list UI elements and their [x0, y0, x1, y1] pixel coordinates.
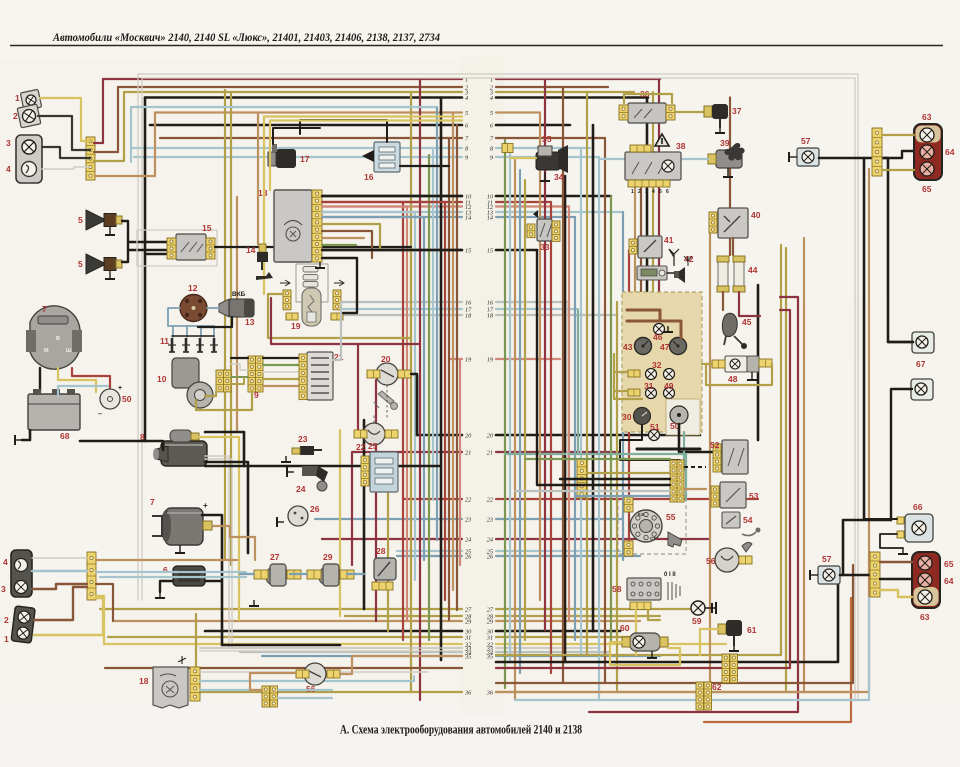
svg-text:24: 24 [487, 536, 493, 543]
horn 5 lower [86, 254, 122, 274]
wire plug drop 1 [172, 326, 174, 337]
heater motor 35 [536, 145, 568, 173]
wire 9 to 21 r5 [263, 385, 299, 387]
wire line 9 right page [496, 156, 599, 158]
wire olive to line36 [195, 614, 197, 692]
wire line 29 left page [113, 620, 462, 622]
wire line 12 left page [322, 205, 462, 207]
oil can icon [256, 272, 273, 280]
wire ll strip down brown [96, 584, 113, 621]
svg-text:5: 5 [78, 215, 83, 225]
sensor 26 [288, 506, 308, 526]
wire starter white a [205, 456, 229, 649]
wire vertical x=605 right page [604, 138, 606, 683]
relay 16 arrow [362, 150, 374, 162]
svg-text:11: 11 [160, 336, 169, 346]
horn 5 upper [86, 210, 122, 230]
svg-text:63: 63 [922, 112, 932, 122]
wire plug drop 3 [200, 326, 202, 337]
wire 66 b left [880, 534, 903, 548]
svg-text:22: 22 [356, 442, 366, 452]
wire panel black loop [620, 425, 680, 460]
wire vertical x=407 left page [406, 207, 408, 621]
wire vertical x=424 left page [423, 217, 425, 560]
svg-text:64: 64 [945, 147, 955, 157]
instrument panel 43-51 [622, 292, 702, 432]
ground horn [105, 271, 115, 279]
svg-text:18: 18 [465, 312, 472, 319]
dash line 20 [386, 385, 388, 418]
wire gen tan out [212, 526, 255, 560]
connector 20 left [367, 370, 380, 378]
wire ll lamps 2 brown [34, 587, 87, 620]
wire line 33 left page [200, 647, 462, 649]
connector 19 left low [286, 313, 298, 320]
ground 66 [898, 548, 908, 554]
wire line 30 left page [205, 630, 462, 633]
wire to stack green [525, 458, 670, 460]
svg-text:5: 5 [465, 110, 468, 117]
svg-text:5: 5 [490, 110, 493, 117]
ground 26 [277, 517, 284, 527]
svg-text:22: 22 [465, 496, 472, 503]
ignition coil 13 [219, 299, 254, 317]
connector 9b [224, 370, 232, 392]
unit 19 outline [296, 264, 328, 302]
svg-text:3: 3 [6, 138, 11, 148]
connector 33 right [552, 221, 560, 241]
wire to stack black1 [560, 478, 670, 480]
antenna mark [684, 256, 692, 266]
wire ll lamps 4 blue [32, 570, 87, 572]
wire line 4 left page [145, 96, 462, 99]
wire 16 black right [400, 165, 449, 167]
wire screened pair left vertical B [141, 78, 143, 600]
wire line 10 right page [496, 195, 611, 198]
connector 9a [216, 370, 224, 392]
svg-text:41: 41 [664, 235, 674, 245]
wire vertical x=617 right page [616, 302, 618, 692]
connector 41 left [629, 239, 637, 254]
svg-text:31: 31 [464, 634, 471, 641]
wire line 16 right page [496, 301, 567, 303]
wire 18 white out [200, 671, 428, 673]
wire stack blue b [278, 697, 332, 699]
svg-text:56: 56 [706, 556, 716, 566]
connector 58 below [630, 602, 651, 610]
connector 22 left [354, 430, 367, 438]
ground 37 [715, 128, 725, 133]
wire lamp1 to strip [40, 98, 90, 141]
wiper motor 10 [172, 358, 213, 408]
wire 7 to bottom [39, 368, 41, 392]
resistor 19 r2 [303, 275, 318, 281]
wire vertical x=647 right page [646, 98, 649, 293]
switch 54 [722, 512, 740, 528]
svg-text:38: 38 [676, 141, 686, 151]
wire 9 white step [231, 364, 248, 370]
wire ltblue top h [131, 106, 436, 108]
wire vertical x=593 right page [592, 125, 595, 631]
svg-text:7: 7 [150, 497, 155, 507]
ground 27 [249, 600, 259, 606]
connector relay15 right [206, 238, 215, 259]
svg-text:14: 14 [465, 214, 471, 221]
wire line 26 right page [496, 555, 640, 557]
connector 48 right [759, 359, 772, 367]
connector stack bottom left [262, 686, 270, 707]
svg-text:19: 19 [291, 321, 301, 331]
wire coil black down [198, 317, 232, 327]
svg-text:63: 63 [920, 612, 930, 622]
wire vertical x=525 right page [524, 180, 526, 640]
connector 56 r [327, 670, 340, 678]
wire strip feeder line1 [94, 79, 103, 143]
wire white from16 [566, 303, 568, 497]
wire vertical x=340 left page [339, 430, 341, 616]
wire 22 dash [373, 414, 375, 423]
svg-text:30: 30 [622, 412, 632, 422]
wire frame yellow B [270, 119, 462, 121]
unit 25 [370, 452, 398, 492]
wire line 28 left page [345, 615, 462, 617]
wire vertical x=237 left page [236, 197, 238, 430]
lamp 32a [646, 369, 657, 380]
wire 36 loop olive [624, 94, 672, 103]
handle sketch 20 [374, 391, 398, 410]
wire line 13 right page [496, 211, 623, 213]
wire line 3 right page [496, 91, 634, 93]
wire bottom fan olive [496, 245, 781, 655]
switch 27 [266, 564, 286, 586]
svg-text:59: 59 [692, 616, 702, 626]
gauge 50r [670, 406, 688, 424]
wire screened pair top horizontal B [142, 77, 855, 79]
wire vertical x=551 right page [550, 202, 552, 673]
connector 48 left [712, 360, 725, 368]
wire vertical x=364 left page [363, 420, 366, 609]
wire vertical x=869 right page [868, 169, 870, 692]
wire panel olive v [614, 354, 642, 399]
svg-text:19: 19 [465, 356, 472, 363]
svg-text:23: 23 [298, 434, 308, 444]
connector line8 [502, 144, 513, 153]
ground 6 [155, 592, 165, 598]
wire pins18 fan 11 [322, 201, 445, 203]
wire pins18 fan 14 [322, 216, 424, 218]
relay 53 [720, 482, 746, 508]
battery 68 [28, 389, 80, 430]
wire vertical x=231 left page [230, 92, 232, 565]
svg-text:Автомобили «Москвич» 2140, 214: Автомобили «Москвич» 2140, 2140 SL «Люкс… [52, 30, 440, 44]
wire bottom fan tan [496, 691, 869, 693]
connector 9d [256, 356, 264, 392]
wire 44 down [722, 292, 724, 310]
hand lever 56 [742, 542, 752, 552]
wire line 33 right page [496, 647, 600, 649]
relay 15 [176, 234, 206, 260]
connector stack 62a2 [730, 654, 738, 683]
wire 61 left [700, 629, 718, 655]
svg-text:67: 67 [916, 359, 926, 369]
ground 34 [540, 172, 550, 181]
wire 9 olive step [231, 378, 244, 384]
wire 9 to 21 r4 [263, 378, 299, 380]
wire screened pair top horizontal A [138, 73, 858, 75]
wire 6 right [205, 580, 222, 582]
svg-text:СТ: СТ [650, 536, 656, 541]
wire line 1 right page [496, 78, 660, 80]
connector 33 left [527, 224, 535, 238]
svg-text:16: 16 [364, 172, 374, 182]
wire rt yellow [882, 134, 914, 136]
wire line 29 right page [496, 620, 640, 622]
wire vertical x=131 left page [130, 107, 132, 162]
connector block18 pins [312, 190, 322, 262]
connector stack 55 right A [670, 460, 677, 502]
svg-text:5: 5 [659, 189, 662, 195]
wire line 6 left page [150, 124, 462, 127]
ground 59b [715, 602, 717, 614]
wire dist to coil blue [207, 307, 219, 309]
lamp unit 66 [905, 514, 933, 542]
antenna 42 [669, 249, 679, 266]
svg-text:М: М [44, 348, 49, 354]
connector 40 left [709, 212, 717, 233]
wire black thick 52 [637, 448, 700, 451]
wire line 22 left page [403, 498, 462, 500]
indicator 50 [100, 389, 120, 409]
svg-text:68: 68 [60, 431, 70, 441]
wire screened pair right vertical B [854, 78, 856, 700]
wire vertical x=429 left page [428, 155, 430, 640]
wire vertical x=540 right page [539, 113, 541, 601]
ground 60 [647, 651, 657, 658]
lamp 2 headlight [17, 104, 41, 128]
lamp 51 [649, 430, 660, 441]
wire 42 link [667, 272, 674, 274]
wire vertical x=388 left page [387, 490, 389, 631]
plug 61 [718, 620, 742, 646]
wire 36 to 37 [675, 111, 704, 113]
spark plug 11-1 [168, 338, 176, 352]
switch 22 [363, 423, 385, 445]
wire line 11 right page [496, 201, 551, 203]
connector 36 right [666, 105, 675, 120]
svg-text:24: 24 [296, 484, 306, 494]
svg-text:20: 20 [487, 432, 494, 439]
switch unit 18 [274, 190, 312, 262]
wire 18 blue out [200, 676, 414, 681]
svg-text:+: + [203, 501, 208, 510]
arrow 33 [533, 210, 538, 218]
ground battery [15, 435, 22, 445]
wire stack blue a [278, 689, 332, 691]
wire bottom fan black [496, 584, 838, 662]
svg-text:27: 27 [487, 606, 494, 613]
generator 7 lower [152, 508, 212, 545]
wire line 34 right page [496, 651, 610, 653]
svg-text:16: 16 [487, 299, 494, 306]
switch 56 right [715, 548, 739, 572]
wire line 13 left page [322, 211, 462, 213]
wire vertical x=352 left page [351, 452, 353, 565]
wire 44 down b [739, 292, 760, 316]
svg-text:3: 3 [1, 584, 6, 594]
wire line 8 left page [131, 147, 462, 149]
wire vertical x=563 right page [562, 87, 564, 683]
arrow 19 left [280, 280, 290, 286]
wire 67a [888, 341, 913, 343]
wire rt green [882, 169, 914, 171]
svg-text:18: 18 [258, 188, 268, 198]
wire 56 tan [340, 656, 462, 674]
tail cluster bottom [912, 552, 940, 608]
wire line 5 right page [496, 111, 540, 113]
wire vertical x=376 left page [375, 380, 377, 621]
svg-text:29: 29 [323, 552, 333, 562]
wire plug drop 4 [213, 326, 215, 337]
connector 27 right [287, 570, 301, 579]
switch 56 left [304, 663, 326, 685]
svg-text:21: 21 [465, 449, 471, 456]
wire vertical x=611 right page [610, 196, 612, 640]
wire panel olive h2 [614, 390, 628, 392]
wire line 35 right page [496, 655, 660, 657]
fuse box 21 [307, 352, 333, 400]
wire line 19 right page [496, 358, 560, 360]
wire lamp3 to strip [42, 147, 90, 158]
svg-text:20: 20 [381, 354, 391, 364]
wire ll strip out tan [96, 559, 237, 561]
ground gen [175, 545, 185, 553]
ground 57 top [789, 152, 797, 162]
svg-text:26: 26 [487, 553, 494, 560]
resistor 19 r3 [303, 282, 318, 288]
regulator 6 [173, 566, 205, 586]
svg-text:37: 37 [732, 106, 742, 116]
svg-text:20: 20 [465, 432, 472, 439]
wire vertical x=569 right page [568, 207, 570, 621]
svg-text:31: 31 [644, 381, 654, 391]
svg-text:47: 47 [660, 342, 670, 352]
svg-text:1: 1 [4, 634, 9, 644]
wire line 21 right page [496, 451, 620, 453]
screen loop relay 15 [137, 230, 217, 266]
svg-text:29: 29 [487, 618, 494, 625]
wire bottom fan dark red [496, 310, 790, 668]
connector relay15 left [167, 238, 176, 259]
svg-text:53: 53 [749, 491, 759, 501]
switch 41 [638, 236, 662, 258]
wire line 11 left page [322, 201, 462, 203]
wire 48 olive loop [706, 364, 772, 385]
wire line 15 left page [322, 249, 462, 252]
wire 19 left loop [268, 294, 411, 338]
wire line 2 right page [496, 86, 608, 88]
wire stack out dashed [684, 466, 706, 468]
svg-text:4: 4 [3, 557, 8, 567]
svg-text:А. Схема электрооборудования а: А. Схема электрооборудования автомобилей… [340, 722, 582, 737]
wire line 22 right page [496, 498, 758, 500]
svg-text:ВКБ: ВКБ [232, 291, 246, 298]
wire vertical x=804 right page [803, 238, 805, 692]
svg-text:19: 19 [487, 356, 494, 363]
wire 10 to 9 [205, 392, 216, 396]
wire frame yellow A v [263, 117, 265, 295]
wire vertical x=505 right page [504, 140, 506, 688]
svg-text:–: – [98, 411, 102, 418]
svg-text:62: 62 [712, 682, 722, 692]
svg-text:45: 45 [742, 317, 752, 327]
wire ltblue to 50 [58, 386, 108, 396]
svg-text:51: 51 [650, 422, 660, 432]
ground 48 [747, 372, 757, 380]
wire 60 loop [610, 642, 680, 665]
wire vertical x=437 left page [436, 107, 438, 540]
lamp 1 front marker [20, 89, 41, 110]
wire vertical x=441 left page [440, 98, 443, 661]
connector 21 pins [299, 354, 307, 400]
svg-text:17: 17 [300, 154, 310, 164]
fuse 44 a [717, 256, 729, 292]
wire line 7 right page [496, 137, 605, 139]
wire 66 left [864, 518, 897, 520]
wire pins18 fan d [322, 244, 356, 246]
wire 19 maroon to 22 [357, 344, 359, 430]
wire line 31 right page [496, 636, 640, 638]
wire vertical x=520 right page [519, 170, 521, 673]
wire 67b [891, 389, 912, 520]
plug 37 [704, 104, 728, 128]
svg-text:46: 46 [653, 332, 663, 342]
wire vertical x=653 right page [652, 92, 654, 292]
wire vertical x=758 right page [757, 285, 760, 440]
svg-text:4: 4 [652, 189, 655, 195]
svg-text:24: 24 [465, 536, 471, 543]
switch 40 [718, 208, 748, 238]
wire 16 loop [300, 120, 387, 142]
fan motor 39 [708, 143, 745, 168]
wire pins18 fan 15 [322, 249, 462, 251]
switch 57 bottom [818, 566, 840, 584]
wire vertical x=786 right page [785, 248, 787, 690]
resistor 19 r1 [303, 267, 318, 273]
wire line 23 left page [315, 518, 462, 520]
wire vertical x=864 right page [863, 158, 866, 519]
svg-text:0 I II: 0 I II [664, 572, 676, 578]
wire to stack black2 [537, 250, 670, 485]
ignition switch 55 [630, 510, 662, 542]
connector 27 left [254, 570, 268, 579]
wire strip feeder line3 [94, 92, 124, 161]
connector 56 l [296, 670, 309, 678]
connector 52 left [713, 444, 721, 472]
connector stack 62b [696, 682, 704, 710]
connector 55 upper [624, 497, 633, 512]
wire vertical x=659 right page [658, 79, 660, 292]
connector 38 bottom [628, 180, 670, 187]
connector 28 below [372, 582, 393, 590]
wire line 24 left page [322, 538, 462, 540]
connector 19 left [283, 290, 291, 310]
spark plug 11-3 [196, 338, 204, 352]
relay 52 [722, 440, 748, 474]
connector 29 left [307, 570, 321, 579]
svg-text:Ш: Ш [66, 348, 72, 354]
wire gen black plus [202, 515, 340, 645]
wire 9 to 21 r2 [263, 364, 299, 366]
